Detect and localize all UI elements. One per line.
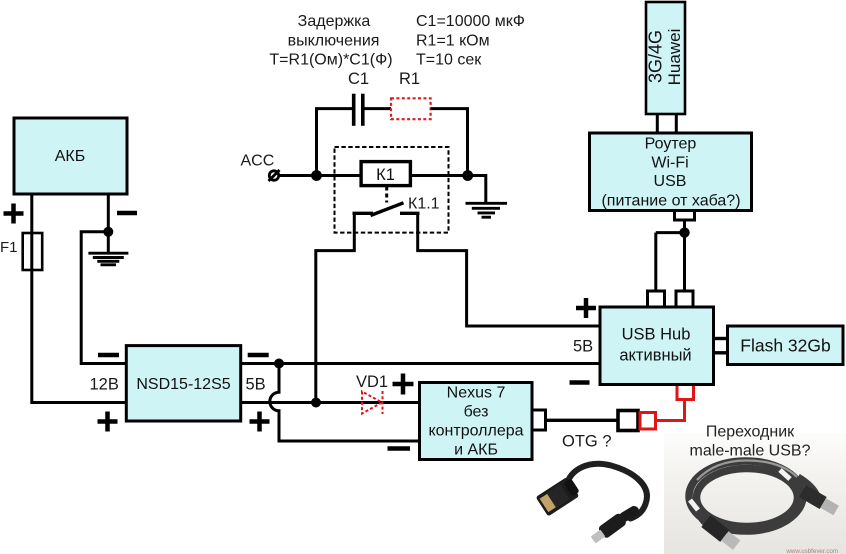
note: delay circuit description text xyxy=(269,13,392,69)
connector male-male plug A (red) xyxy=(640,413,656,430)
svg-text:С1=10000 мкФ: С1=10000 мкФ xyxy=(416,13,525,30)
label − (converter 5V minus) xyxy=(248,353,269,358)
node battery minus junction xyxy=(103,227,113,237)
svg-text:USB: USB xyxy=(654,173,687,190)
connector tablet USB port xyxy=(532,410,546,430)
ground (battery) xyxy=(88,232,128,265)
wire hub plug2 up xyxy=(683,233,686,291)
wire modem to router 2 xyxy=(675,114,678,133)
wire modem to router 1 xyxy=(656,114,659,133)
capacitor C1 xyxy=(354,94,363,126)
note: component values text xyxy=(416,13,525,69)
label − (battery minus) xyxy=(117,211,137,216)
svg-text:F1: F1 xyxy=(0,239,18,256)
svg-text:(питание от хаба?): (питание от хаба?) xyxy=(601,193,740,210)
label − (converter 12V minus) xyxy=(98,353,119,358)
tablet Nexus 7 xyxy=(420,383,533,460)
relay dashed enclosure xyxy=(335,147,449,233)
svg-text:3G/4G: 3G/4G xyxy=(646,30,666,83)
wire relay coil to right node xyxy=(410,174,467,177)
modem 3G/4G Huawei xyxy=(646,2,686,114)
wire converter 5V plus output to diode and tablet xyxy=(241,401,420,404)
wire male-male cable (red) xyxy=(656,400,685,421)
hub USB Hub активный xyxy=(600,307,714,385)
svg-text:ACC: ACC xyxy=(241,153,275,170)
svg-text:OTG ?: OTG ? xyxy=(562,433,612,451)
svg-text:и АКБ: и АКБ xyxy=(454,442,498,459)
wire minus branch down with hop over plus wire xyxy=(270,364,420,442)
svg-text:Flash 32Gb: Flash 32Gb xyxy=(740,336,830,356)
svg-text:5В: 5В xyxy=(246,376,266,394)
switch К1.1 xyxy=(353,203,420,216)
relay actuating link (dashed) xyxy=(385,187,388,203)
svg-text:Huawei: Huawei xyxy=(665,29,684,86)
label + (battery plus) xyxy=(4,204,24,224)
svg-text:www.usbfever.com: www.usbfever.com xyxy=(785,548,838,554)
wire battery minus junction to converter − input xyxy=(81,232,126,364)
svg-text:male-male USB?: male-male USB? xyxy=(690,443,811,460)
wire ACC junction up to capacitor C1 xyxy=(317,109,353,176)
label + (converter 5V plus) xyxy=(250,412,270,432)
label − (hub minus) xyxy=(570,380,590,385)
svg-text:5В: 5В xyxy=(573,338,593,356)
node ACC junction xyxy=(311,170,322,181)
svg-text:без: без xyxy=(464,404,489,421)
svg-text:АКБ: АКБ xyxy=(55,148,86,165)
svg-text:12В: 12В xyxy=(90,376,119,394)
node 5V minus junction xyxy=(274,359,284,369)
photo OTG cable xyxy=(536,464,647,546)
svg-text:выключения: выключения xyxy=(288,33,380,50)
node switched plus junction xyxy=(311,398,321,408)
diode VD1 (dashed red) xyxy=(362,391,383,414)
connector male-male plug B (red, at hub) xyxy=(677,383,694,400)
svg-text:R1: R1 xyxy=(399,70,420,88)
svg-text:VD1: VD1 xyxy=(356,373,388,391)
svg-text:Nexus 7: Nexus 7 xyxy=(447,385,506,402)
wire hub plug1 up xyxy=(654,233,657,291)
relay coil К1 xyxy=(361,162,410,186)
wire battery plus down to fuse xyxy=(30,194,33,233)
connector hub upstream plug 2 xyxy=(676,291,693,307)
connector router USB port xyxy=(675,210,695,220)
svg-text:Роутер: Роутер xyxy=(645,136,697,153)
node relay right junction xyxy=(462,170,473,181)
svg-text:К1: К1 xyxy=(376,166,395,184)
wire junction to router connector xyxy=(683,220,686,233)
wire hub link across xyxy=(656,231,685,234)
svg-text:К1.1: К1.1 xyxy=(408,196,440,213)
svg-text:Т=10 сек: Т=10 сек xyxy=(416,52,482,69)
node hub feed junction xyxy=(679,227,689,237)
svg-text:С1: С1 xyxy=(348,70,369,88)
label − (tablet minus) xyxy=(388,446,411,451)
photo male-male USB cable xyxy=(664,433,846,554)
svg-text:NSD15-12S5: NSD15-12S5 xyxy=(136,376,230,393)
resistor R1 (dashed red) xyxy=(391,98,431,119)
converter NSD15-12S5 xyxy=(126,346,240,421)
connector OTG plug (black) xyxy=(618,411,638,431)
svg-text:USB Hub: USB Hub xyxy=(622,326,691,344)
svg-text:контроллера: контроллера xyxy=(428,423,523,440)
label + (converter 12V plus) xyxy=(98,412,118,432)
label + (tablet plus) xyxy=(393,374,414,395)
wire R1 to relay right node xyxy=(431,109,468,176)
terminal ACC input xyxy=(269,170,280,181)
connector hub upstream plug 1 xyxy=(648,291,665,307)
wire switch left to plus junction xyxy=(316,214,355,403)
wire C1 to R1 xyxy=(365,107,392,110)
battery АКБ xyxy=(14,118,127,194)
wire tablet port to OTG plug xyxy=(546,419,619,422)
label Переходник male-male USB? xyxy=(690,424,811,460)
svg-text:Задержка: Задержка xyxy=(298,13,371,30)
svg-text:Т=R1(Ом)*С1(Ф): Т=R1(Ом)*С1(Ф) xyxy=(269,52,392,69)
wire converter 5V minus output to USB hub xyxy=(241,362,600,365)
wire switch right to USB hub plus input xyxy=(418,214,600,326)
wire hub to flash pin 1 xyxy=(714,337,728,340)
svg-text:Wi-Fi: Wi-Fi xyxy=(651,155,688,172)
svg-text:Переходник: Переходник xyxy=(706,424,795,441)
svg-text:активный: активный xyxy=(619,347,691,365)
ground (relay) xyxy=(466,203,508,217)
wire ACC to relay coil xyxy=(279,174,361,177)
label + (hub plus) xyxy=(576,298,596,318)
router Роутер Wi-Fi USB xyxy=(590,133,752,211)
wire fuse down and right to converter + input xyxy=(32,270,126,403)
fuse F1 xyxy=(23,233,43,270)
svg-text:R1=1 кОм: R1=1 кОм xyxy=(416,33,490,50)
wire battery minus down to junction xyxy=(107,194,110,232)
wire hub to flash pin 2 xyxy=(714,351,728,354)
wire right node to ground xyxy=(468,176,486,205)
flash drive Flash 32Gb xyxy=(728,326,844,365)
